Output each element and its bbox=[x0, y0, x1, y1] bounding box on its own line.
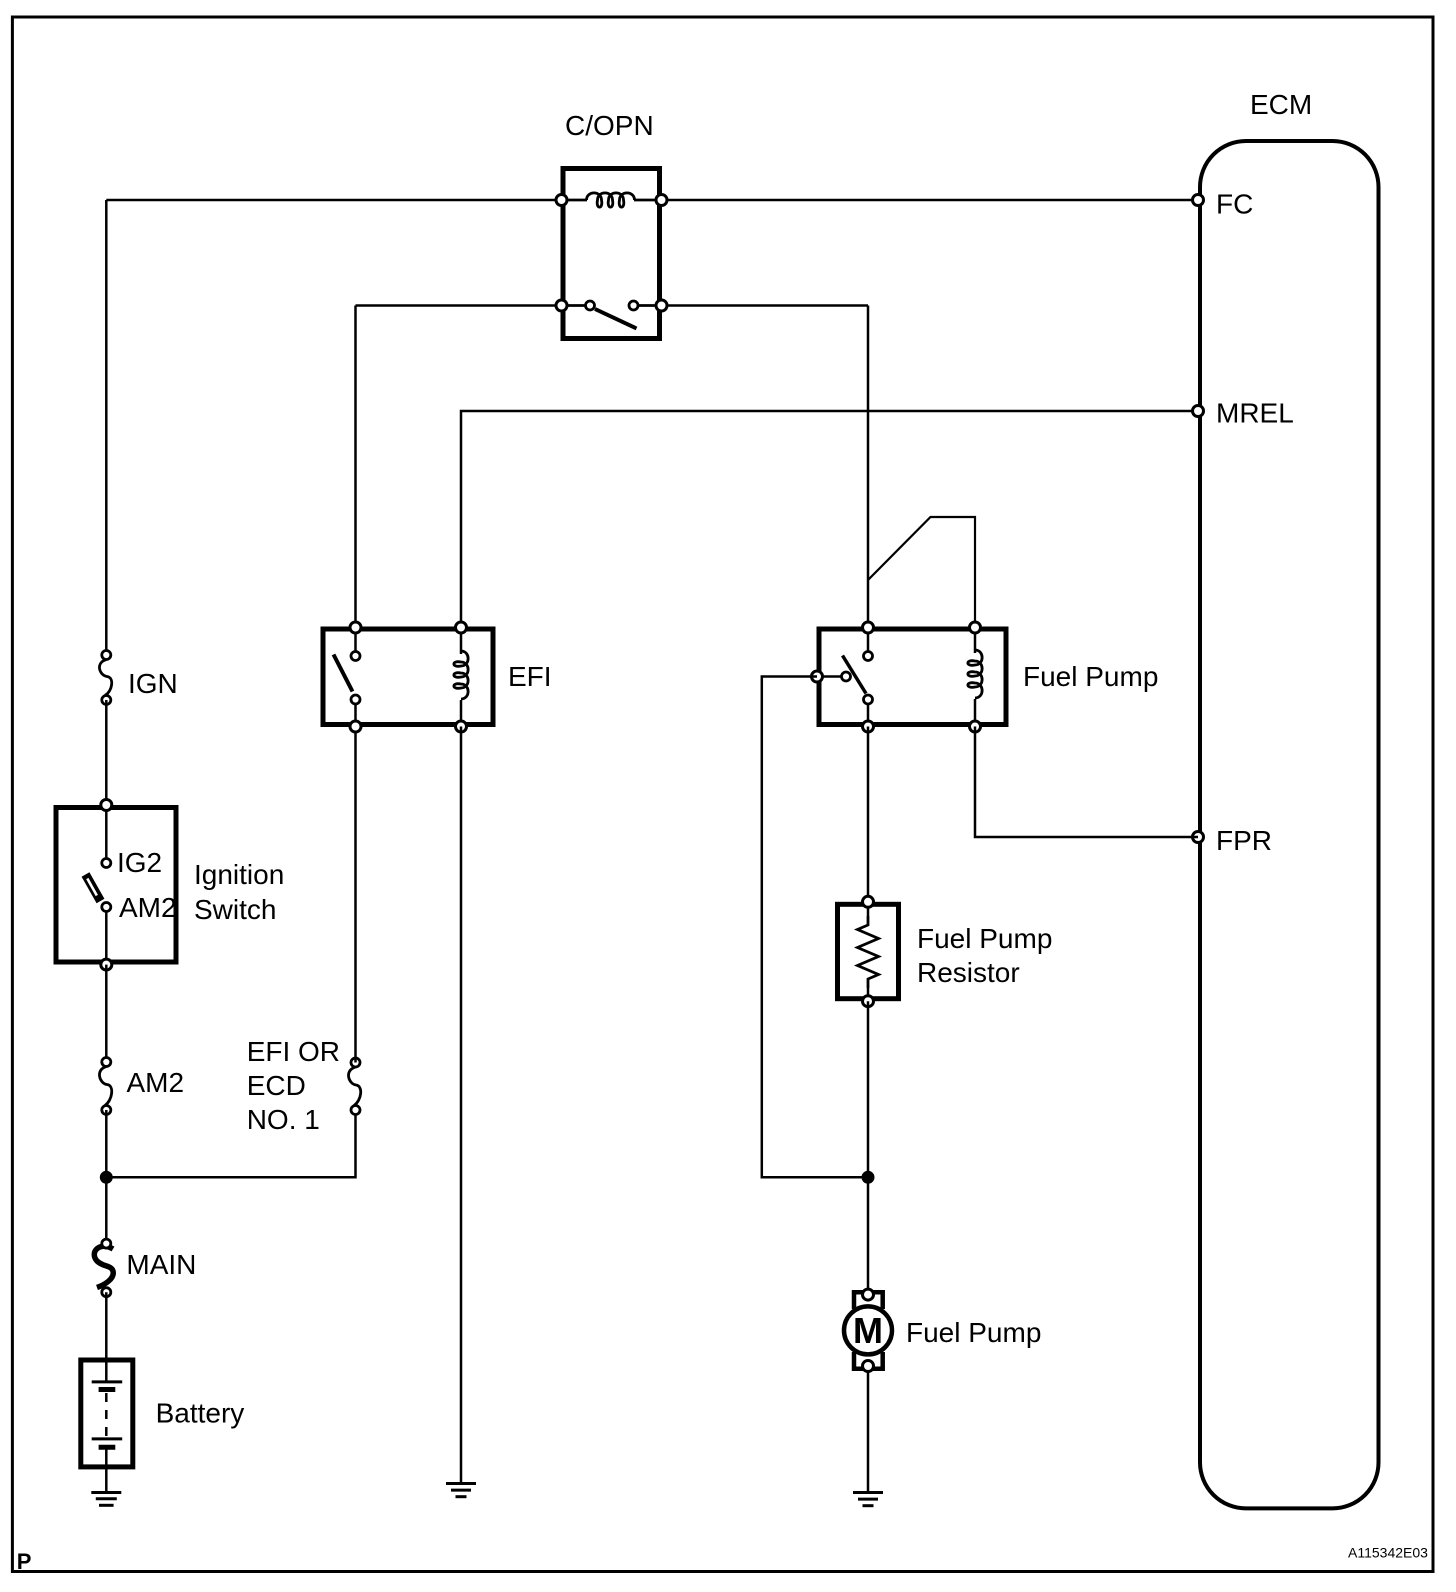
EFI coil bbox=[460, 633, 463, 654]
svg-text:ECD: ECD bbox=[247, 1070, 306, 1101]
fuel pump motor bbox=[844, 1289, 1041, 1371]
svg-text:IG2: IG2 bbox=[117, 847, 162, 878]
fuse IGN bbox=[99, 651, 177, 705]
contact IG2 bbox=[102, 859, 111, 868]
svg-text:IGN: IGN bbox=[128, 668, 178, 699]
svg-text:Switch: Switch bbox=[194, 894, 276, 925]
ignition switch lever wedge bbox=[86, 875, 101, 902]
svg-text:EFI: EFI bbox=[508, 661, 552, 692]
fuel pump relay switch lever bbox=[843, 656, 867, 694]
diagonal tap wire to Fuel Pump relay coil bbox=[868, 517, 975, 628]
fuse AM2 bbox=[99, 1058, 184, 1115]
svg-text:Ignition: Ignition bbox=[194, 859, 284, 890]
wire MREL: EFI coil up and right to ECM MREL bbox=[461, 411, 1198, 628]
svg-text:AM2: AM2 bbox=[127, 1067, 185, 1098]
wire relay switch down through resistor bbox=[867, 727, 870, 902]
terminal ignition switch top bbox=[101, 800, 112, 811]
wire resistor down to motor bbox=[867, 1001, 870, 1289]
wire MAIN link to battery bbox=[105, 1292, 108, 1360]
motor circle bbox=[844, 1306, 892, 1354]
fusible link MAIN bbox=[94, 1239, 196, 1297]
svg-text:FC: FC bbox=[1216, 189, 1253, 220]
wire FC: C/OPN coil to ECM FC terminal bbox=[662, 199, 1199, 202]
motor top bracket bbox=[854, 1292, 883, 1309]
svg-text:EFI OR: EFI OR bbox=[247, 1036, 340, 1067]
wire down to EFI relay switch bbox=[354, 306, 357, 628]
wire C/OPN switch-left horizontal bbox=[356, 304, 562, 307]
terminal ignition switch bottom bbox=[101, 959, 112, 970]
terminal C/OPN coil right bbox=[656, 195, 667, 206]
relay EFI bbox=[323, 622, 552, 732]
C/OPN switch contact small circle left bbox=[586, 301, 595, 310]
svg-text:Fuel Pump: Fuel Pump bbox=[906, 1317, 1041, 1348]
battery plate long top bbox=[92, 1380, 123, 1383]
battery bbox=[81, 1360, 245, 1492]
wire ignition switch to AM2 fuse bbox=[105, 965, 108, 1062]
svg-text:ECM: ECM bbox=[1250, 89, 1312, 120]
wire motor to ground bbox=[867, 1372, 870, 1493]
wire down to Fuel Pump relay switch bbox=[867, 306, 870, 628]
svg-text:P: P bbox=[17, 1549, 32, 1574]
wire FPR: relay coil down and right to ECM FPR bbox=[975, 727, 1198, 838]
terminal C/OPN switch right bbox=[656, 300, 667, 311]
wire IGN fuse to ignition switch bbox=[105, 700, 108, 805]
svg-text:Fuel Pump: Fuel Pump bbox=[917, 923, 1052, 954]
terminals fuel pump relay bbox=[863, 622, 874, 633]
svg-text:NO. 1: NO. 1 bbox=[247, 1104, 320, 1135]
wire top-left horizontal from battery line to C/OPN coil bbox=[106, 199, 561, 202]
svg-text:MREL: MREL bbox=[1216, 398, 1294, 429]
ignition switch bbox=[56, 800, 284, 971]
terminal C/OPN coil left bbox=[556, 195, 567, 206]
wire AM2 fuse down to junction and MAIN link bbox=[105, 1110, 108, 1244]
svg-text:C/OPN: C/OPN bbox=[565, 110, 654, 141]
svg-text:Fuel Pump: Fuel Pump bbox=[1023, 661, 1158, 692]
relay Fuel Pump bbox=[812, 622, 1159, 732]
battery plate long bottom bbox=[92, 1437, 123, 1440]
junction dot left bbox=[100, 1171, 113, 1184]
terminal MREL bbox=[1193, 406, 1204, 417]
svg-text:M: M bbox=[853, 1310, 883, 1351]
terminal FPR bbox=[1193, 832, 1204, 843]
svg-text:MAIN: MAIN bbox=[126, 1249, 196, 1280]
ground fuel pump bbox=[853, 1493, 883, 1506]
battery plate short bottom bbox=[99, 1445, 116, 1450]
fuel pump relay coil bbox=[974, 633, 977, 653]
terminal FC bbox=[1193, 195, 1204, 206]
terminals EFI relay bbox=[350, 622, 361, 633]
ground EFI bbox=[446, 1484, 476, 1497]
wire left main vertical to IGN fuse bbox=[105, 200, 108, 655]
wire EFI/ECD fuse up to EFI relay bbox=[354, 727, 357, 1063]
C/OPN switch contact small circle right bbox=[629, 301, 638, 310]
wire C/OPN switch-right horizontal bbox=[662, 304, 869, 307]
wire left branch from relay to lower junction bbox=[762, 677, 868, 1178]
contact AM2 bbox=[102, 903, 111, 912]
battery plate short top bbox=[99, 1387, 116, 1392]
terminal C/OPN switch left bbox=[556, 300, 567, 311]
resistor zigzag bbox=[858, 916, 879, 988]
fuel pump resistor bbox=[838, 896, 1053, 1006]
svg-text:FPR: FPR bbox=[1216, 825, 1272, 856]
battery dashed middle bbox=[105, 1393, 108, 1437]
motor bottom bracket bbox=[854, 1352, 883, 1369]
relay C/OPN bbox=[556, 110, 667, 339]
svg-text:Resistor: Resistor bbox=[917, 957, 1020, 988]
C/OPN switch lever bbox=[595, 309, 637, 329]
wire EFI coil to ground bbox=[460, 727, 463, 1484]
junction dot lower bbox=[862, 1171, 875, 1184]
svg-text:Battery: Battery bbox=[156, 1398, 245, 1429]
coil of C/OPN bbox=[564, 199, 587, 202]
EFI switch lever bbox=[334, 655, 353, 692]
fuse EFI OR ECD NO.1 bbox=[247, 1036, 361, 1135]
svg-text:A115342E03: A115342E03 bbox=[1348, 1545, 1428, 1561]
svg-text:AM2: AM2 bbox=[119, 892, 177, 923]
wire junction to EFI/ECD fuse branch bbox=[106, 1110, 355, 1177]
ECM box bbox=[1200, 89, 1379, 1508]
ground battery bbox=[91, 1493, 121, 1506]
